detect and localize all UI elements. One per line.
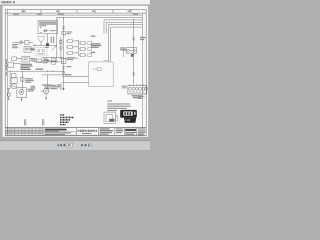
title mid rows [45,132,71,135]
wire break chevrons mid trunk [62,66,64,69]
label M1 [28,89,34,92]
label M2 left rows [31,86,36,90]
housing dark detail [109,119,114,122]
fuse F5 [79,42,86,45]
component box U8 [21,77,24,81]
title block section dividers [44,128,137,136]
junction dot [52,71,53,72]
wire long row C4 [62,75,89,77]
label F1 value [67,31,73,34]
title cell A rows [100,128,114,134]
title cell D rows [138,128,146,135]
viewer top bar [0,0,150,5]
revision strip lines [5,130,44,132]
label above long wire [36,69,44,70]
title cell B rows [116,128,124,133]
wire from U3 [31,48,35,50]
motor M1 terminal wire [20,97,22,99]
bottom viewer strip [0,141,150,150]
wire row C [42,74,64,76]
right trunk wire [133,20,135,86]
label maxi fuse note [91,43,102,48]
label B+ jumper [67,57,75,60]
label U5 right [31,59,36,62]
pump box P1 [11,78,17,84]
connector C123 comb top pins [130,84,146,86]
title block top line [5,127,146,129]
drawing border frame [5,10,146,136]
wire trunk center drop [63,18,65,89]
component box U7 [12,74,16,78]
component box U3 [24,47,31,53]
motor M2 bottom wire [45,94,47,98]
wire into funnel area [33,44,41,46]
motor M1 arrow [20,99,22,101]
label C123 left [122,86,127,89]
inner margin line right [142,13,144,128]
label page corner note [138,96,144,99]
label left cluster [12,44,18,48]
wire trunk left drop [56,18,58,64]
fuse F7 [79,54,86,57]
junction dot [47,71,48,72]
ground symbol [60,83,62,89]
component box U4 [12,57,17,60]
component box U5 [22,56,30,62]
fuse value labels [74,40,78,53]
wire drop to splice X1 [47,75,49,86]
label M2 right rows [50,86,59,89]
label C4/B [65,74,72,75]
wire U5 right [30,58,37,60]
circuit breaker CB2 box [126,48,136,53]
revision strip cell dividers [10,128,41,136]
component box U6 [37,59,42,62]
fuse F10 [88,54,92,57]
fuse F2 [66,40,73,43]
ruler labels [13,14,138,15]
label near P1 [25,78,34,83]
left margin vertical text [6,59,7,76]
connector C123 lattice row [129,91,145,93]
wire bus line 2 [57,17,143,19]
wire break chevrons right trunk lower [133,72,135,75]
note box annotation [38,20,58,33]
motor M1 [19,89,24,94]
motor M1 box [17,88,27,98]
pump motor circle P1 [11,84,16,89]
chassis stud component [5,63,14,68]
wire stud to text [14,63,21,65]
indicator circle [59,46,62,49]
wire row A [42,57,64,59]
splice X1 box [46,86,49,89]
label wire B gauge [44,60,49,61]
wire long row gnd [62,82,89,84]
viewer background [0,0,150,150]
diode D1 [131,54,134,56]
ruler line [5,12,146,14]
label X1 [50,85,56,88]
connector C123 body [128,86,147,94]
stub wire into enclosure [103,60,108,62]
title company name [45,129,67,131]
label 150A [91,36,96,37]
title mid line [44,131,76,133]
motor M2 [43,88,48,93]
wire row B [34,61,64,63]
relay contact stack [52,59,56,65]
wire drop left 2 [21,71,23,90]
wire continuation stubs pair 2 [42,119,44,125]
title char string label [82,133,92,134]
vertical pin labels [51,37,55,44]
title drawing number [125,129,136,131]
part drawing housing [104,112,117,123]
arrow terminal on center trunk [62,88,64,90]
title block bottom thick [5,135,146,137]
label K2 [30,48,35,51]
label A2/A [140,37,145,40]
pager toolbar [58,143,93,147]
motor M2 arrow [45,98,47,100]
fuse F4 [66,52,73,55]
sensor arrow [8,99,10,100]
wire to lamp [12,41,19,43]
relay K2 dashed box [35,48,47,56]
motor M2 left stub wire [41,90,44,92]
wire from funnel [41,41,57,45]
schematic page [3,6,149,137]
fuse F8 [88,42,92,45]
fuse F9 [88,48,92,51]
terminal tick box [62,72,64,74]
sensor probe left [7,89,10,99]
wire bus line 1 (battery feed) [8,14,142,16]
title cell C rows [125,132,136,135]
wire U4 to U5 [17,58,22,60]
inner margin line left [7,10,9,136]
label connector C1 [66,66,71,67]
label splice wires [33,45,49,48]
smart text block [21,64,33,70]
wire M3 right [48,60,56,62]
fuse F6 [79,48,86,51]
wire from U2 [29,41,33,43]
ruler zone ticks [23,10,131,14]
wire cascade corner 4 [111,27,143,62]
connector funnel J1 [38,37,45,42]
wire cascade corner 2 [106,22,142,33]
fuse column feeder [60,37,62,59]
fuse grid bottom wire [60,57,78,59]
wire cascade corner 1 [104,20,142,34]
splice block S1 [46,43,49,46]
motor symbol small M3 [43,59,48,63]
note text block right [107,100,131,111]
ruler band zone numbers [22,11,131,12]
fuse grid riser [78,40,80,57]
switch SW1 diagonal [52,45,57,50]
ECM dashed enclosure box [89,62,114,86]
label GND [57,84,61,87]
fuse F3 [66,46,73,49]
part photo dark relay [120,110,137,123]
long wire bus row [8,70,64,72]
lamp L1 [19,41,22,44]
wire break chevrons right trunk upper [133,37,135,40]
B+ jumper box [61,58,66,63]
label C123 below [132,95,143,98]
label 30A [91,52,95,53]
revision strip text rows [6,128,43,134]
component box U2 [24,41,29,45]
label CB2 amps [120,47,126,50]
label M2 above [42,84,52,85]
title company sub [45,130,59,133]
fuse F1 on center trunk [62,31,65,35]
note text block dark center [60,114,74,125]
breaker CB1 [60,40,62,44]
connector C123 pin circles [129,87,148,90]
wire stub to splice [47,34,49,43]
title char string [77,130,96,132]
wire continuation stubs pair 1 [24,119,26,125]
wire lamp to box [23,41,25,43]
wire drop left 1 [9,71,11,88]
wire from CB2 left [124,50,127,57]
wire break chevrons on center trunk [62,26,64,29]
wire cascade corner 3 [108,25,142,62]
motor M2 top pins [45,87,48,89]
